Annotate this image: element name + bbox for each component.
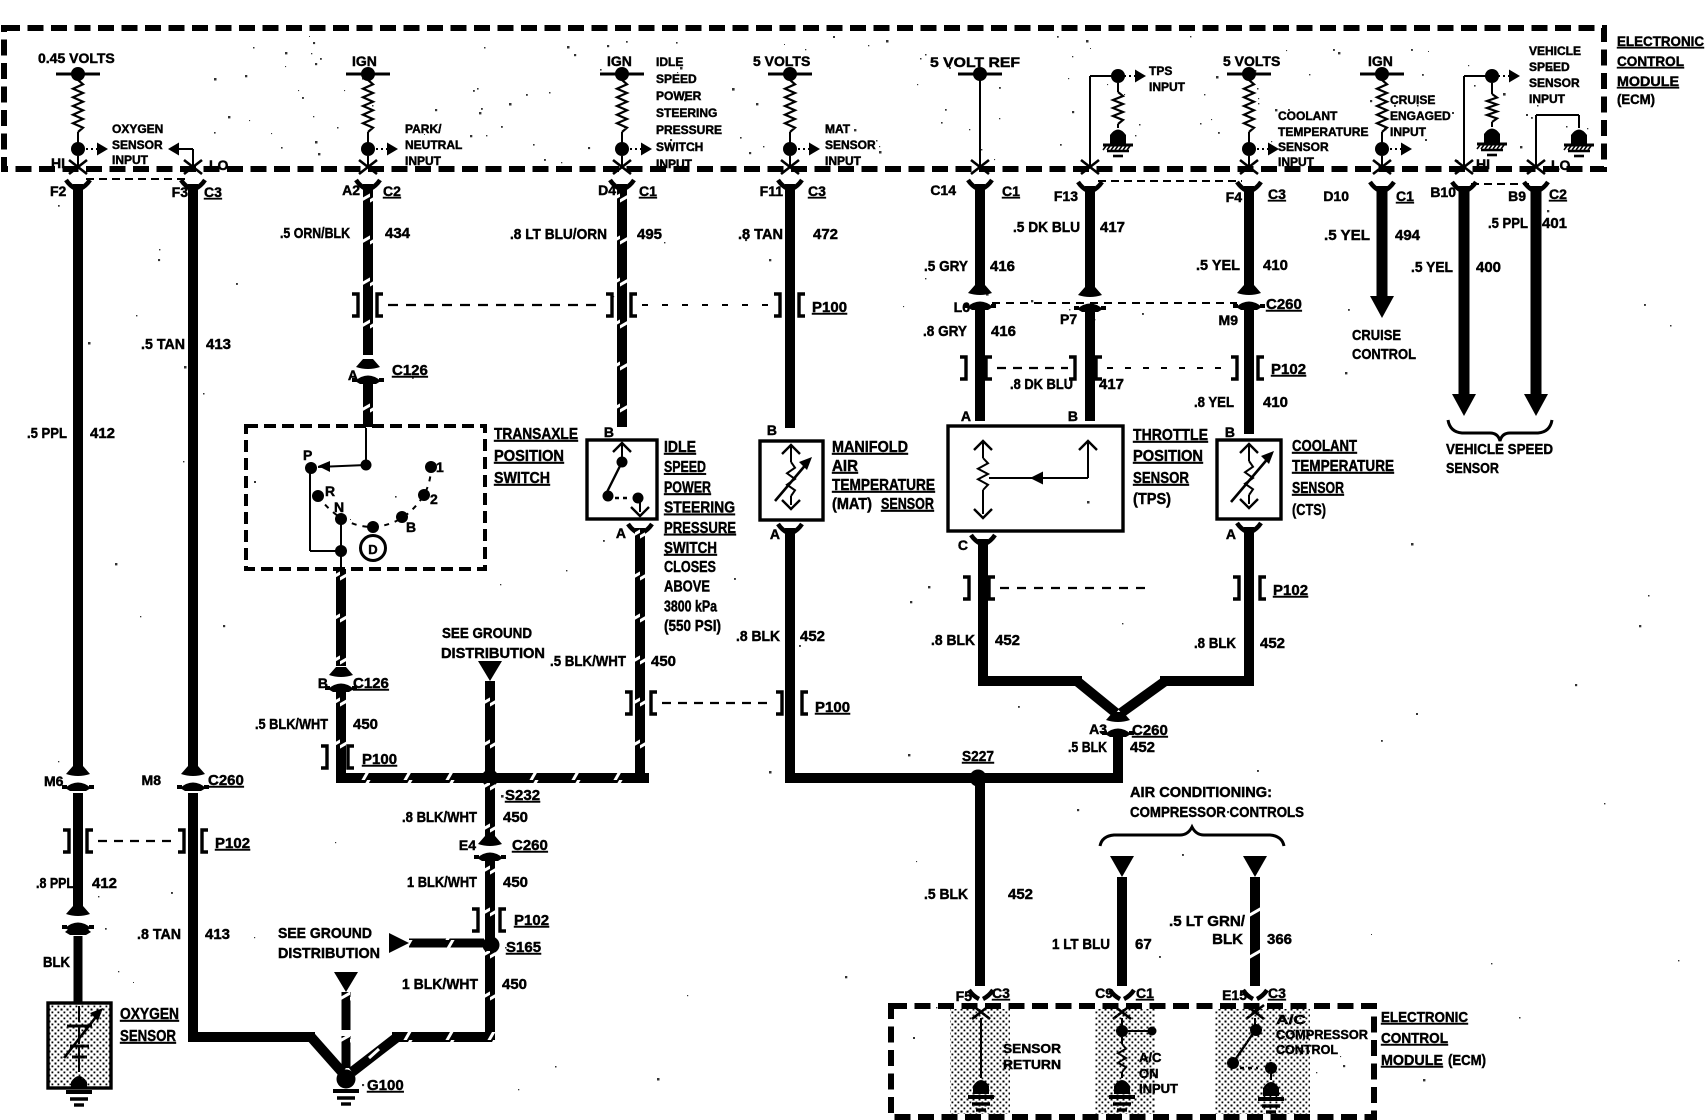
wire segment to TPS pin B xyxy=(1085,312,1095,421)
pass-through brackets P100 lower row xyxy=(625,692,850,716)
svg-text:0.45 VOLTS: 0.45 VOLTS xyxy=(38,50,115,66)
wire: .5 YEL 494 to cruise control, pin D10 xyxy=(1323,182,1420,318)
svg-text:CRUISE: CRUISE xyxy=(1352,327,1401,344)
wire: .5 DK BLU 417 TPS signal, pin F13 xyxy=(1013,182,1125,288)
svg-text:410: 410 xyxy=(1263,394,1288,411)
pin A cup of pressure switch xyxy=(616,524,652,541)
svg-text:A/C: A/C xyxy=(1139,1050,1162,1065)
ECM internal network: 0.45 VOLTS oxygen sensor HI input xyxy=(38,50,115,174)
svg-text:INPUT: INPUT xyxy=(1149,80,1186,94)
wire: .5 PPL 412 / BLK oxygen sensor HI, pin F2 xyxy=(27,180,115,766)
label: COOLANT TEMPERATURE SENSOR INPUT xyxy=(1278,109,1368,169)
svg-text:452: 452 xyxy=(995,632,1020,649)
svg-text:417: 417 xyxy=(1099,376,1124,393)
svg-text:ON: ON xyxy=(1139,1066,1159,1081)
svg-text:A3: A3 xyxy=(1089,721,1107,737)
svg-text:LO: LO xyxy=(209,157,229,173)
svg-text:P102: P102 xyxy=(1273,582,1308,599)
ECM internal network: IGN pull-up for pressure switch input (pin D4) xyxy=(600,53,652,174)
svg-text:NEUTRAL: NEUTRAL xyxy=(405,138,462,152)
svg-text:B10: B10 xyxy=(1430,184,1456,200)
ECM electronic control module box (top) xyxy=(4,28,1604,169)
connector A C126 xyxy=(348,359,428,384)
svg-text:SENSOR: SENSOR xyxy=(1529,76,1580,90)
svg-text:INPUT: INPUT xyxy=(405,154,442,168)
svg-text:C2: C2 xyxy=(383,183,401,199)
svg-text:450: 450 xyxy=(502,976,527,993)
wire 1 BLK/WHT 450 S165 to G100 xyxy=(392,951,527,1042)
svg-text:SENSOR: SENSOR xyxy=(112,138,163,152)
svg-text:CONTROL: CONTROL xyxy=(1276,1042,1338,1057)
label: A/C COMPRESSOR CONTROL xyxy=(1276,1012,1369,1057)
svg-text:SENSOR: SENSOR xyxy=(1133,470,1189,487)
svg-text:POSITION: POSITION xyxy=(494,448,564,465)
svg-text:OXYGEN: OXYGEN xyxy=(112,122,163,136)
svg-text:PRESSURE: PRESSURE xyxy=(664,520,736,537)
svg-text:PRESSURE: PRESSURE xyxy=(656,123,722,137)
svg-text:INPUT: INPUT xyxy=(1390,125,1427,139)
svg-text:TEMPERATURE: TEMPERATURE xyxy=(1278,125,1368,139)
svg-text:5 VOLTS: 5 VOLTS xyxy=(753,53,810,69)
svg-text:INPUT: INPUT xyxy=(1529,92,1566,106)
svg-text:MODULE: MODULE xyxy=(1381,1052,1443,1069)
svg-text:C260: C260 xyxy=(1266,296,1302,313)
svg-text:CONTROL: CONTROL xyxy=(1381,1030,1448,1047)
svg-text:(TPS): (TPS) xyxy=(1133,491,1171,508)
svg-text:IGN: IGN xyxy=(607,53,632,69)
svg-text:(ECM): (ECM) xyxy=(1448,1052,1486,1069)
svg-text:495: 495 xyxy=(637,226,662,243)
svg-text:P102: P102 xyxy=(1271,361,1306,378)
splice S227 xyxy=(962,748,994,787)
svg-text:M9: M9 xyxy=(1219,312,1239,328)
wire: 1 LT BLU 67 A/C on input, pin C9 xyxy=(1052,877,1152,986)
svg-text:E15: E15 xyxy=(1222,987,1247,1003)
svg-text:INPUT: INPUT xyxy=(825,154,862,168)
svg-text:B: B xyxy=(1068,408,1078,424)
component: throttle position sensor (TPS) xyxy=(948,408,1123,531)
svg-text:COOLANT: COOLANT xyxy=(1278,109,1338,123)
svg-text:ABOVE: ABOVE xyxy=(664,579,710,596)
svg-text:(CTS): (CTS) xyxy=(1292,502,1326,519)
svg-text:412: 412 xyxy=(92,875,117,892)
svg-text:434: 434 xyxy=(385,225,411,242)
pass-through brackets P102 upper row xyxy=(960,357,1306,379)
svg-text:5 VOLT REF: 5 VOLT REF xyxy=(930,54,1021,70)
wire: .5 LT GRN/BLK 366 compressor control, pin E15 xyxy=(1169,877,1292,986)
pass-through brackets P102 at ground wire xyxy=(472,909,549,931)
component: idle speed power steering pressure switch xyxy=(587,424,657,519)
svg-text:SENSOR: SENSOR xyxy=(881,496,934,513)
svg-text:.5 YEL: .5 YEL xyxy=(1324,227,1370,244)
label: VEHICLE SPEED SENSOR INPUT xyxy=(1529,44,1581,106)
svg-text:A: A xyxy=(616,525,626,541)
svg-text:SENSOR: SENSOR xyxy=(1278,140,1329,154)
svg-text:S227: S227 xyxy=(962,748,994,765)
svg-text:C1: C1 xyxy=(1136,985,1154,1001)
svg-text:MODULE: MODULE xyxy=(1617,73,1679,89)
svg-text:C3: C3 xyxy=(1268,186,1286,202)
svg-text:M6: M6 xyxy=(44,773,64,789)
svg-text:.5 DK BLU: .5 DK BLU xyxy=(1013,219,1080,236)
svg-text:C1: C1 xyxy=(1396,188,1414,204)
svg-text:C3: C3 xyxy=(992,985,1010,1001)
svg-text:TRANSAXLE: TRANSAXLE xyxy=(494,426,578,443)
connector double bell on oxygen wire xyxy=(62,906,94,935)
svg-text:417: 417 xyxy=(1100,219,1125,236)
svg-text:C1: C1 xyxy=(1002,183,1020,199)
ECM internal network: 5 VOLTS pull-up for coolant temperature sensor input (pin F4) xyxy=(1223,53,1280,174)
svg-text:1 BLK/WHT: 1 BLK/WHT xyxy=(402,976,478,993)
pin A cup of CTS xyxy=(1226,523,1261,542)
svg-text:A: A xyxy=(348,367,358,383)
svg-text:HI: HI xyxy=(1476,156,1490,172)
ground G100 xyxy=(333,1070,404,1105)
svg-text:IDLE: IDLE xyxy=(656,55,683,69)
svg-text:VEHICLE SPEED: VEHICLE SPEED xyxy=(1446,441,1553,458)
svg-text:C260: C260 xyxy=(512,837,548,854)
svg-text:OXYGEN: OXYGEN xyxy=(120,1006,179,1023)
pass-through brackets P102 on oxygen wires xyxy=(63,830,250,852)
svg-text:.5 BLK: .5 BLK xyxy=(1068,739,1107,756)
svg-text:SPEED: SPEED xyxy=(656,72,697,86)
component: manifold air temperature (MAT) sensor xyxy=(760,422,823,520)
label: CRUISE ENGAGED INPUT xyxy=(1390,93,1451,139)
svg-text:C: C xyxy=(958,537,968,553)
svg-text:R: R xyxy=(325,483,335,499)
connector E4 C260 xyxy=(459,836,548,861)
label: COOLANT TEMPERATURE SENSOR (CTS) xyxy=(1292,438,1394,519)
svg-text:.8 TAN: .8 TAN xyxy=(137,926,181,943)
svg-text:SENSOR: SENSOR xyxy=(1446,460,1499,477)
svg-text:CONTROL: CONTROL xyxy=(1352,346,1416,363)
svg-text:STEERING: STEERING xyxy=(656,106,717,120)
connector M6 xyxy=(44,766,94,791)
wire: .8 BLK 452 CTS return xyxy=(1160,527,1285,686)
svg-text:B: B xyxy=(406,519,416,535)
wire: .5 BLK/WHT 450 pressure switch to ground bus xyxy=(550,528,676,773)
svg-text:366: 366 xyxy=(1267,931,1292,948)
svg-text:.5 BLK: .5 BLK xyxy=(924,886,968,903)
svg-text:(ECM): (ECM) xyxy=(1617,91,1655,107)
connector A3 C260 xyxy=(1068,712,1168,756)
svg-text:G100: G100 xyxy=(367,1077,404,1094)
svg-text:M8: M8 xyxy=(142,772,162,788)
ECM internal network: IGN pull-up for cruise engaged input (pin D10) xyxy=(1360,53,1412,174)
svg-text:INPUT: INPUT xyxy=(112,153,149,167)
svg-text:472: 472 xyxy=(813,226,838,243)
brace under vehicle speed sensor arrows xyxy=(1448,420,1552,441)
svg-text:IGN: IGN xyxy=(352,53,377,69)
svg-text:.8 BLK/WHT: .8 BLK/WHT xyxy=(402,809,477,826)
svg-text:A2: A2 xyxy=(342,182,360,198)
connector M8 C260 xyxy=(142,766,244,791)
svg-text:P7: P7 xyxy=(1060,311,1077,327)
svg-text:SENSOR: SENSOR xyxy=(120,1028,176,1045)
ECM internal network: TPS input with pull-down resistor to ground (pin F13) xyxy=(1081,69,1146,174)
svg-text:C1: C1 xyxy=(639,183,657,199)
svg-text:E4: E4 xyxy=(459,837,476,853)
svg-text:410: 410 xyxy=(1263,257,1288,274)
ECM internal network: 5 VOLT REF (pin C14) xyxy=(930,54,1021,174)
svg-text:.5 PPL: .5 PPL xyxy=(27,425,67,442)
component: coolant temperature sensor (CTS) xyxy=(1217,424,1281,519)
svg-text:2: 2 xyxy=(430,491,438,507)
splice S165 xyxy=(483,937,542,957)
wire: .5 ORN/BLK 434 park/neutral, pin A2 xyxy=(280,180,411,355)
svg-text:C3: C3 xyxy=(808,183,826,199)
svg-text:B9: B9 xyxy=(1508,188,1526,204)
svg-text:F3: F3 xyxy=(172,184,189,200)
ECM internal network: IGN pull-up for park/neutral input (pin A2) xyxy=(346,53,398,174)
ECM internal network: 5 VOLTS pull-up for MAT sensor input (pin F11) xyxy=(753,53,820,174)
svg-text:416: 416 xyxy=(990,258,1015,275)
svg-text:F4: F4 xyxy=(1226,189,1243,205)
svg-text:.5 YEL: .5 YEL xyxy=(1196,257,1240,274)
ECM internal network: oxygen sensor LO input xyxy=(168,143,229,175)
arrow down A/C on input wire xyxy=(1110,856,1134,877)
svg-text:DISTRIBUTION: DISTRIBUTION xyxy=(441,645,545,662)
ECM pin F5 sensor return network xyxy=(956,985,1010,1110)
svg-text:452: 452 xyxy=(1008,886,1033,903)
wire: .5 TAN 413 oxygen sensor LO, pin F3 xyxy=(141,180,231,766)
wire segment .8 GRY 416 to TPS pin A xyxy=(923,310,1016,421)
svg-text:ENGAGED: ENGAGED xyxy=(1390,109,1451,123)
ECM electronic control module box (bottom) xyxy=(891,1006,1374,1117)
label .8 DK BLU 417 on P102 row xyxy=(1010,376,1124,393)
svg-text:BLK: BLK xyxy=(43,954,70,971)
svg-text:COMPRESSOR: COMPRESSOR xyxy=(1276,1027,1369,1042)
scan noise speckle inside ECM box xyxy=(214,36,1588,163)
connector M9 C260 xyxy=(1219,285,1302,328)
svg-text:POWER: POWER xyxy=(656,89,702,103)
svg-text:SPEED: SPEED xyxy=(1529,60,1570,74)
svg-text:DISTRIBUTION: DISTRIBUTION xyxy=(278,945,380,962)
svg-text:401: 401 xyxy=(1542,215,1567,232)
svg-text:.5 BLK/WHT: .5 BLK/WHT xyxy=(550,653,626,670)
label: SEE GROUND DISTRIBUTION (lower) xyxy=(278,925,380,962)
svg-text:413: 413 xyxy=(205,926,230,943)
svg-text:ELECTRONIC: ELECTRONIC xyxy=(1381,1009,1468,1026)
svg-text:C126: C126 xyxy=(353,675,389,692)
svg-text:.8 YEL: .8 YEL xyxy=(1194,394,1234,411)
svg-text:CRUISE: CRUISE xyxy=(1390,93,1435,107)
component: transaxle position switch xyxy=(246,426,485,569)
connector P7 C260 xyxy=(1060,287,1106,327)
svg-text:.5 LT GRN/: .5 LT GRN/ xyxy=(1169,913,1246,930)
svg-text:INPUT: INPUT xyxy=(1139,1081,1178,1096)
svg-text:STEERING: STEERING xyxy=(664,500,735,517)
svg-text:1: 1 xyxy=(436,459,444,475)
pin A cup of MAT sensor xyxy=(770,524,802,542)
svg-text:L6: L6 xyxy=(954,299,971,315)
ECM internal network: vehicle speed sensor LO input to ground (pin B9) xyxy=(1527,115,1594,174)
svg-text:D4: D4 xyxy=(598,182,616,198)
brace over A/C compressor control wires xyxy=(1100,827,1284,846)
wire segment below M6 xyxy=(73,793,83,912)
wire diagonal TPS return to A3 xyxy=(1078,682,1116,713)
wire: .8 BLK 452 TPS return xyxy=(931,539,1082,686)
wire: .5 GRY 416 5V ref to TPS, pin C14 xyxy=(924,180,1020,286)
svg-text:S232: S232 xyxy=(505,787,540,804)
svg-text:C3: C3 xyxy=(1268,985,1286,1001)
ECM pin C9 A/C on input network xyxy=(1095,985,1156,1110)
label: CRUISE CONTROL xyxy=(1352,327,1416,363)
svg-text:MANIFOLD: MANIFOLD xyxy=(832,439,908,456)
connector row dashed line F2 to F3 xyxy=(86,178,186,180)
svg-text:452: 452 xyxy=(1260,635,1285,652)
label: SEE GROUND DISTRIBUTION (upper) xyxy=(441,625,545,662)
arrow down A/C compressor control wire xyxy=(1243,856,1267,877)
svg-text:413: 413 xyxy=(206,336,231,353)
svg-text:C260: C260 xyxy=(1132,722,1168,739)
wire: .5 PPL 401 VSS LO, pin B9 xyxy=(1488,182,1567,416)
label: TPS INPUT xyxy=(1149,64,1186,94)
svg-text:452: 452 xyxy=(1130,739,1155,756)
wire 1 BLK/WHT 450 E4 to S165 xyxy=(407,861,528,940)
svg-text:SENSOR: SENSOR xyxy=(1003,1041,1062,1056)
svg-text:.8 DK BLU: .8 DK BLU xyxy=(1010,376,1073,393)
svg-text:TEMPERATURE: TEMPERATURE xyxy=(1292,458,1394,475)
svg-text:.5 GRY: .5 GRY xyxy=(924,258,968,275)
svg-text:C3: C3 xyxy=(204,184,222,200)
svg-text:F13: F13 xyxy=(1054,188,1078,204)
label .8 PPL 412 xyxy=(36,875,117,892)
svg-text:BLK: BLK xyxy=(1212,931,1243,948)
wire: .5 YEL 400 VSS HI, pin B10 xyxy=(1411,182,1501,416)
svg-text:C126: C126 xyxy=(392,362,428,379)
svg-text:IDLE: IDLE xyxy=(664,439,696,456)
svg-text:SWITCH: SWITCH xyxy=(494,470,550,487)
label: AIR CONDITIONING: COMPRESSOR CONTROLS xyxy=(1130,784,1304,821)
connector row dashed line F13 to F4 xyxy=(1098,180,1242,182)
svg-text:.5 PPL: .5 PPL xyxy=(1488,215,1528,232)
wire diagonal from ground run to G100 xyxy=(352,1038,396,1072)
svg-text:POSITION: POSITION xyxy=(1133,448,1203,465)
svg-text:A/C: A/C xyxy=(1276,1012,1307,1027)
pass-through brackets P100 at transaxle ground wire xyxy=(321,746,397,768)
svg-text:SWITCH: SWITCH xyxy=(664,540,717,557)
label: MANIFOLD AIR TEMPERATURE (MAT) SENSOR xyxy=(832,439,935,513)
svg-text:LO: LO xyxy=(1551,157,1571,173)
arrow from ground distribution into splice S165 xyxy=(389,933,484,953)
svg-text:SEE GROUND: SEE GROUND xyxy=(278,925,372,942)
svg-text:.5 YEL: .5 YEL xyxy=(1411,259,1453,276)
svg-text:3800 kPa: 3800 kPa xyxy=(664,598,717,615)
svg-text:ELECTRONIC: ELECTRONIC xyxy=(1617,33,1704,49)
svg-text:452: 452 xyxy=(800,628,825,645)
wire from A3 to sensor return bus xyxy=(1113,737,1123,773)
svg-text:416: 416 xyxy=(991,323,1016,340)
svg-text:.8 GRY: .8 GRY xyxy=(923,323,967,340)
wire segment BLK to oxygen sensor xyxy=(43,936,83,1003)
label: pressure switch name and note xyxy=(664,439,736,635)
svg-text:C14: C14 xyxy=(930,182,956,198)
svg-text:INPUT: INPUT xyxy=(656,157,693,171)
svg-text:INPUT: INPUT xyxy=(1278,155,1315,169)
ECM pin E15 A/C compressor control switch network xyxy=(1222,985,1286,1112)
wire: .5 BLK 452 sensor return to ECM pin F5 xyxy=(924,783,1033,986)
svg-text:TPS: TPS xyxy=(1149,64,1172,78)
svg-text:F2: F2 xyxy=(50,183,67,199)
svg-text:400: 400 xyxy=(1476,259,1501,276)
arrow from ground distribution into S232 wire xyxy=(478,661,502,681)
svg-text:.8 BLK: .8 BLK xyxy=(1194,635,1236,652)
svg-text:P: P xyxy=(303,447,312,463)
svg-text:AIR: AIR xyxy=(832,458,858,475)
splice S232 xyxy=(482,770,541,805)
svg-text:PARK/: PARK/ xyxy=(405,122,442,136)
svg-text:A: A xyxy=(1226,526,1236,542)
connector B C126 xyxy=(318,667,389,692)
svg-text:.8 BLK: .8 BLK xyxy=(736,628,780,645)
svg-text:P102: P102 xyxy=(215,835,250,852)
svg-text:.8 PPL: .8 PPL xyxy=(36,875,74,892)
svg-text:B: B xyxy=(604,424,614,440)
svg-text:CONTROL: CONTROL xyxy=(1617,53,1684,69)
svg-text:D: D xyxy=(368,542,377,557)
svg-text:THROTTLE: THROTTLE xyxy=(1133,427,1208,444)
svg-text:AIR CONDITIONING:: AIR CONDITIONING: xyxy=(1130,784,1272,801)
svg-text:P102: P102 xyxy=(514,912,549,929)
label: VEHICLE SPEED SENSOR xyxy=(1446,441,1553,477)
svg-text:67: 67 xyxy=(1135,936,1152,953)
svg-text:1 BLK/WHT: 1 BLK/WHT xyxy=(407,874,477,891)
label: IDLE SPEED POWER STEERING PRESSURE SWITCH INPUT xyxy=(656,55,722,171)
svg-text:A: A xyxy=(961,408,971,424)
svg-text:POWER: POWER xyxy=(664,479,711,496)
ECM title text xyxy=(1617,33,1704,107)
svg-text:C2: C2 xyxy=(1549,186,1567,202)
wire segment .8 TAN 413 down to ground run xyxy=(137,793,315,1042)
svg-text:.8 TAN: .8 TAN xyxy=(738,226,783,243)
connector row dashed line B10 to B9 xyxy=(1471,183,1529,185)
pass-through brackets P100 upper row xyxy=(352,294,847,316)
wire: .5 YEL 410 coolant sensor, pin F4 xyxy=(1196,182,1288,286)
svg-text:P100: P100 xyxy=(815,699,850,716)
label: TRANSAXLE POSITION SWITCH xyxy=(494,426,578,487)
svg-text:N: N xyxy=(334,499,344,515)
wire ground distribution stem to S232 xyxy=(485,681,495,773)
ECM title text (bottom) xyxy=(1381,1009,1486,1069)
svg-text:CLOSES: CLOSES xyxy=(664,559,716,576)
svg-text:.5 BLK/WHT: .5 BLK/WHT xyxy=(255,716,328,733)
svg-text:A: A xyxy=(770,526,780,542)
svg-text:(550 PSI): (550 PSI) xyxy=(664,618,721,635)
label: A/C ON INPUT xyxy=(1139,1050,1178,1096)
wire diagonal TAN into ground G100 xyxy=(311,1037,342,1072)
svg-text:.5 TAN: .5 TAN xyxy=(141,336,185,353)
svg-text:.8 BLK: .8 BLK xyxy=(931,632,975,649)
svg-text:P100: P100 xyxy=(812,299,847,316)
svg-text:C260: C260 xyxy=(208,772,244,789)
pass-through brackets P102 middle row xyxy=(963,577,1308,599)
svg-text:494: 494 xyxy=(1395,227,1421,244)
svg-text:1 LT BLU: 1 LT BLU xyxy=(1052,936,1110,953)
svg-text:SENSOR: SENSOR xyxy=(1292,480,1344,497)
svg-text:.5 ORN/BLK: .5 ORN/BLK xyxy=(280,225,350,242)
svg-text:.8 LT BLU/ORN: .8 LT BLU/ORN xyxy=(510,226,607,243)
svg-text:(MAT): (MAT) xyxy=(832,496,872,513)
svg-text:COOLANT: COOLANT xyxy=(1292,438,1357,455)
wire: .8 TAN 472 MAT sensor, pin F11 xyxy=(738,180,838,428)
svg-text:450: 450 xyxy=(503,874,528,891)
pin C cup of TPS xyxy=(958,535,995,553)
wire: .8 LT BLU/ORN 495 pressure switch, pin D4 xyxy=(510,180,662,427)
svg-text:450: 450 xyxy=(353,716,378,733)
svg-text:SWITCH: SWITCH xyxy=(656,140,703,154)
svg-text:450: 450 xyxy=(503,809,528,826)
